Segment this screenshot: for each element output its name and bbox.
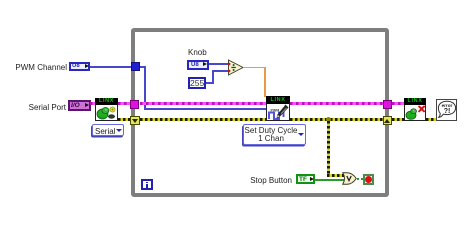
wire PWM Channel vertical <box>144 66 146 109</box>
tunnel blue <box>131 62 140 71</box>
LINX PWM Set Duty Cycle node <box>266 96 290 121</box>
wire error LINX Close to error handler <box>426 118 436 121</box>
constant 255 <box>188 77 206 89</box>
tunnel VISA left <box>130 100 139 109</box>
control PWM Channel U8 <box>69 62 90 71</box>
wire PWM Channel to tunnel <box>90 66 146 68</box>
wire error LINX PWM to right SR <box>290 118 383 121</box>
shift register right <box>383 116 393 125</box>
divide node <box>226 58 246 78</box>
control Stop Button boolean <box>296 174 315 184</box>
wire error LINX Open to left shift register <box>118 118 131 121</box>
junction error branch <box>326 117 331 122</box>
wire divide out orange <box>243 67 266 69</box>
while loop <box>131 28 389 197</box>
wire 255 to divide <box>206 82 214 84</box>
loop condition stop terminal <box>363 174 374 185</box>
svg-text:?!: ?! <box>443 108 450 115</box>
wire VISA control to LINX Open <box>90 102 96 105</box>
tunnel VISA right <box>383 100 392 109</box>
wire VISA LINX PWM to right tunnel <box>290 102 383 105</box>
Simple Error Handler <box>436 99 457 121</box>
wire PWM Channel to LINX PWM node <box>144 108 267 110</box>
LINX Close node <box>404 98 426 121</box>
enum constant Serial <box>92 124 124 136</box>
ring constant Set Duty Cycle 1 Chan <box>243 124 306 145</box>
wire error right SR to LINX Close <box>392 118 404 121</box>
label Serial Port <box>24 103 66 112</box>
wire error branch vertical <box>327 121 330 175</box>
label Knob <box>188 48 207 57</box>
label PWM Channel <box>10 63 67 72</box>
wire Or gate to stop terminal <box>357 178 364 180</box>
wire VISA LINX Open to tunnel <box>118 102 130 105</box>
iteration terminal i <box>141 179 153 190</box>
wire Knob to divide <box>209 63 229 65</box>
LINX Open node <box>95 98 118 121</box>
Or gate <box>342 172 357 185</box>
wire error branch to Or gate <box>327 174 344 177</box>
control Knob U8 <box>187 60 209 70</box>
wire error left SR to LINX PWM <box>140 118 266 121</box>
wire Stop Button to Or gate <box>315 179 345 181</box>
wire VISA tunnel to LINX PWM <box>140 102 266 105</box>
shift register left <box>130 116 140 125</box>
control Serial Port VISA <box>68 100 91 111</box>
wire VISA right tunnel to LINX Close <box>392 102 404 105</box>
label Stop Button <box>246 176 292 185</box>
